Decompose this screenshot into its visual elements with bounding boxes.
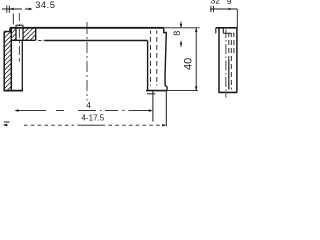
top right dim tick	[210, 6, 212, 12]
side view left lip	[215, 28, 217, 34]
dim 34.5 left arrowhead	[10, 8, 14, 11]
bottom extension line from foot right	[167, 90, 197, 92]
right leg inner face	[147, 41, 149, 91]
left inner step face below flange	[21, 40, 23, 90]
top right dim extension down	[236, 9, 238, 28]
bottom dim 4 right arrowhead	[149, 109, 153, 112]
side view right edge	[236, 28, 238, 93]
left leg outer face	[3, 32, 5, 91]
top right dim line	[210, 8, 237, 10]
dim 8 upper arrow stub	[180, 22, 182, 28]
dim 40 line	[195, 28, 197, 91]
left leg inner face	[10, 28, 12, 91]
hole centerline left boss	[18, 13, 20, 62]
bottom dim 4-17.5 right arrowhead	[162, 124, 166, 127]
bottom dim 4-17.5 left arrowhead	[3, 124, 8, 127]
bottom dim 4-17.5 extension line	[165, 91, 167, 127]
top right dim arrowhead	[229, 8, 233, 11]
bottom dim 4-17.5 line	[24, 124, 165, 126]
dim 8 upper arrowhead	[180, 24, 183, 28]
flange block hatching left of hole	[11, 28, 16, 40]
dim 34.5 tick 1	[6, 6, 8, 13]
side view bottom line	[218, 91, 237, 93]
svg-text:8: 8	[172, 31, 182, 36]
bottom dim 4 extension line	[152, 91, 154, 122]
bottom dim 4-17.5 left tick	[4, 121, 10, 123]
left leg foot bottom line	[4, 90, 24, 92]
dim 8 lower arrowhead	[180, 41, 183, 45]
side view top line	[216, 27, 237, 29]
flange hole right edge	[22, 28, 24, 41]
dim 34.5 line left part	[2, 8, 29, 10]
bottom dim 4 line	[16, 110, 151, 112]
side view inner notch vertical	[222, 28, 224, 34]
flange block bottom edge	[11, 39, 35, 41]
dim 34.5 tick 2	[8, 6, 10, 13]
dim 34.5 right arrowhead	[29, 8, 33, 11]
side view centerline dash-dot	[225, 30, 227, 98]
svg-text:4: 4	[86, 100, 91, 110]
side view hidden line far right short dashed	[233, 33, 235, 53]
flange bottom line dash-dot start	[38, 40, 43, 42]
boss cap above flange hole	[16, 25, 24, 28]
right leg outer profile	[164, 28, 167, 91]
left leg top step corner	[4, 28, 10, 32]
side view hidden line mid dashed	[228, 33, 230, 60]
svg-text:34.5: 34.5	[35, 0, 55, 10]
dim 34.5 extension line short	[12, 14, 14, 25]
flange hole left edge	[15, 28, 17, 41]
flange bottom long line	[44, 40, 147, 42]
top flange outer top line	[10, 27, 164, 29]
svg-text:40: 40	[182, 58, 194, 70]
svg-text:4-17.5: 4-17.5	[82, 113, 105, 122]
center hole centerline mid flange	[86, 22, 88, 101]
dim 8 lower arrow stub	[180, 41, 182, 47]
side view left edge	[218, 28, 220, 93]
top extension line to right dims	[164, 27, 200, 29]
right leg hidden hole right dashed	[156, 31, 158, 86]
flange block hatching right of hole	[23, 28, 36, 40]
side view inner step line	[223, 32, 234, 34]
bottom dim 4 left arrowhead	[15, 109, 19, 112]
flange section block right edge	[35, 28, 37, 41]
side view hidden line right dashed	[230, 33, 232, 89]
side view hidden line mid solid lower	[228, 60, 230, 90]
dim 40 bottom arrowhead	[195, 86, 198, 90]
svg-text:32: 32	[211, 0, 221, 6]
top right dim tick 2	[212, 6, 214, 12]
left leg hatching	[4, 32, 11, 91]
right leg hidden hole left dashed	[149, 31, 151, 86]
right leg foot bottom line	[146, 90, 167, 92]
svg-text:9: 9	[227, 0, 232, 6]
right leg foot second line	[147, 93, 155, 95]
dim 40 top arrowhead	[195, 28, 198, 32]
